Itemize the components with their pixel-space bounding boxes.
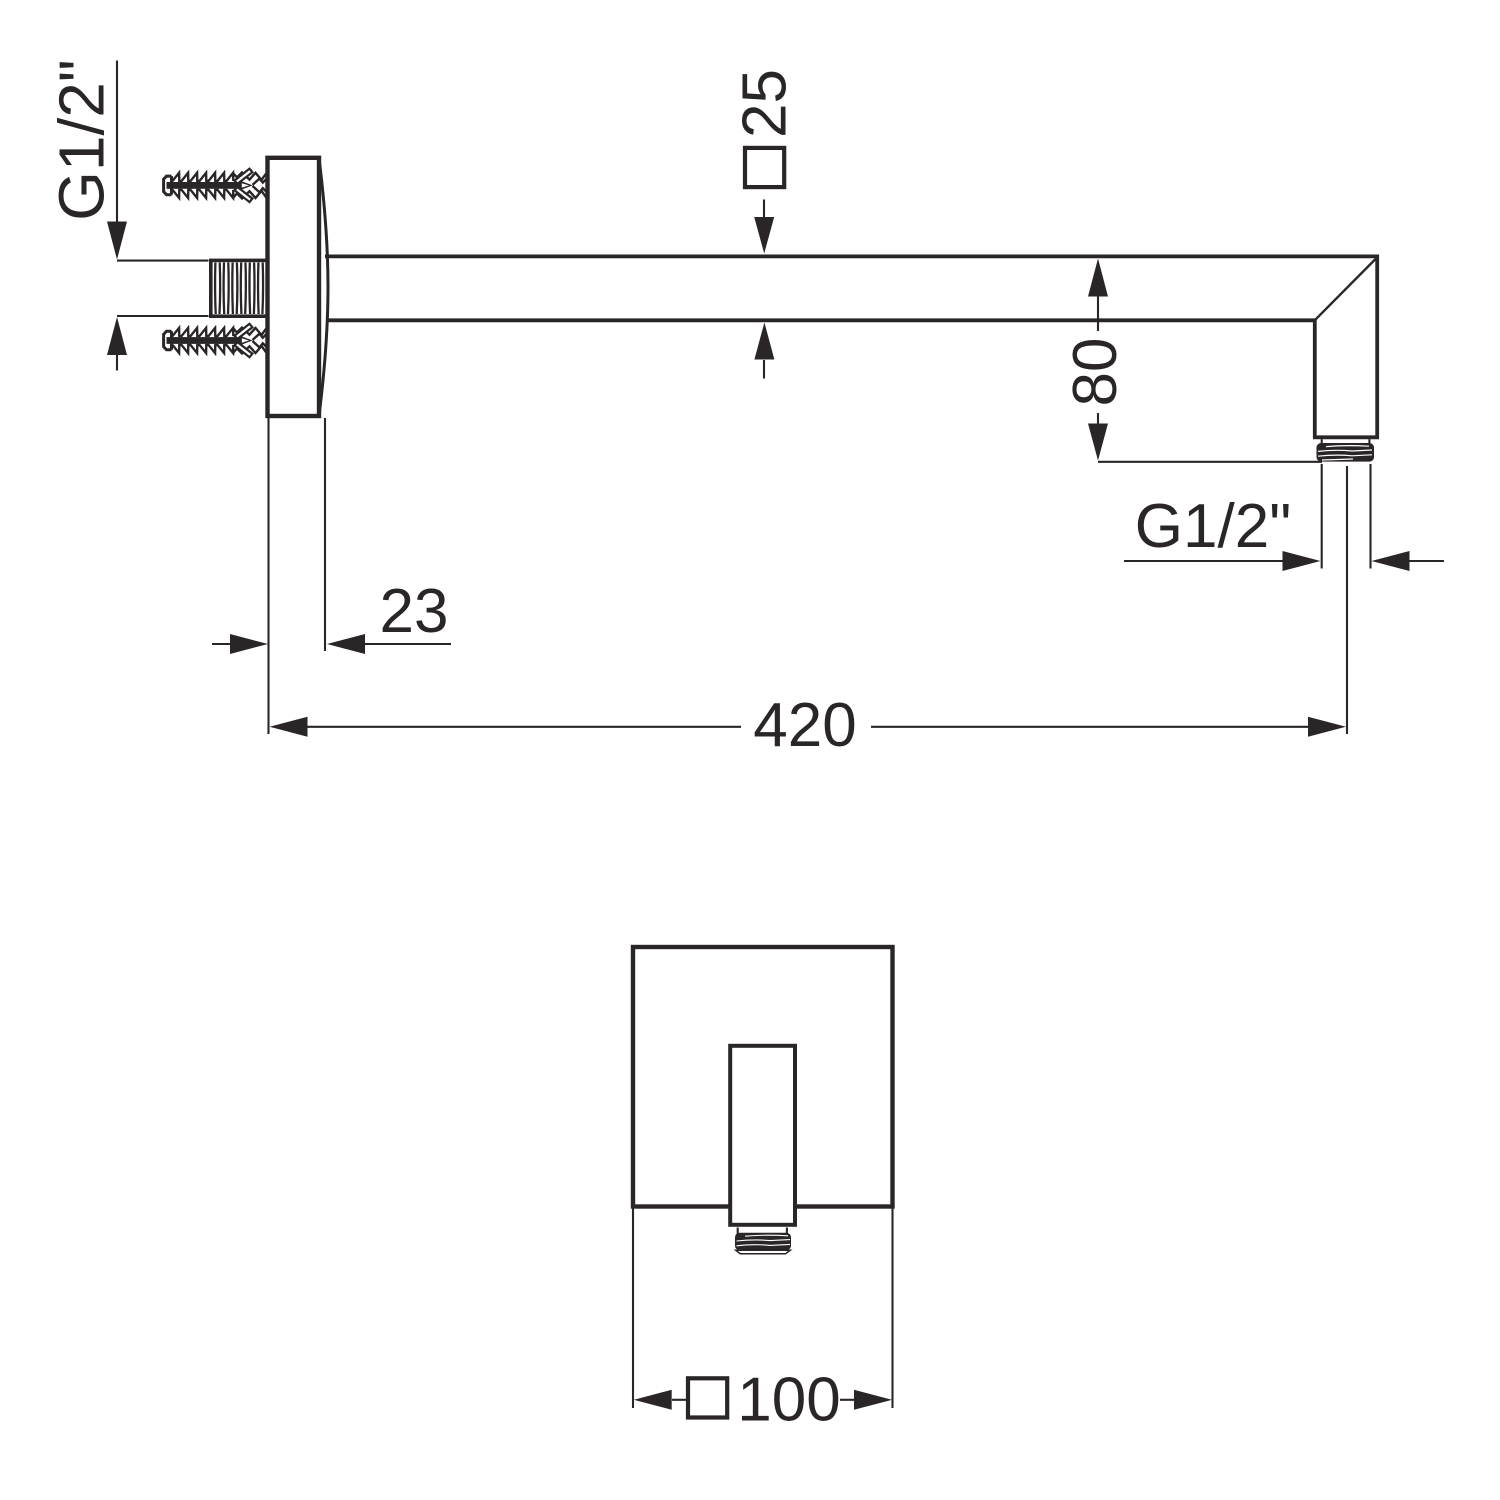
dimension square 25 (top)	[745, 148, 784, 187]
wall connection thread pipe G1/2	[211, 260, 268, 316]
wall plate (escutcheon side view)	[268, 158, 329, 416]
dimension G1/2" (outlet)	[1124, 464, 1444, 569]
svg-text:80: 80	[1061, 338, 1130, 407]
dimension 80 (right vertical)	[1098, 296, 1322, 462]
escutcheon front view square	[633, 947, 893, 1207]
outlet thread G1/2 (side view)	[1317, 443, 1375, 462]
dimension square 100 (front view width)	[633, 1209, 893, 1409]
svg-text:100: 100	[737, 1366, 840, 1435]
svg-text:25: 25	[731, 69, 800, 138]
svg-text:23: 23	[380, 577, 449, 646]
screw with wall plug (top)	[164, 169, 269, 202]
outlet thread neck (side view)	[1322, 439, 1370, 444]
dimension 420 (arm length)	[269, 418, 1348, 734]
arm vertical drop section	[1313, 255, 1379, 439]
svg-text:G1/2": G1/2"	[1135, 492, 1291, 561]
svg-text:G1/2": G1/2"	[46, 59, 118, 220]
dimension 23 (plate depth)	[212, 418, 451, 651]
screw with wall plug (bottom)	[164, 324, 269, 357]
arm tube front view	[730, 1046, 795, 1225]
outlet neck front view	[738, 1228, 787, 1235]
shower arm horizontal tube	[325, 256, 1379, 320]
dimension G1/2 (left, wall connection)	[117, 61, 209, 371]
outlet thread front view	[735, 1233, 791, 1254]
elbow miter diagonal	[1315, 257, 1377, 320]
svg-text:420: 420	[753, 691, 856, 760]
